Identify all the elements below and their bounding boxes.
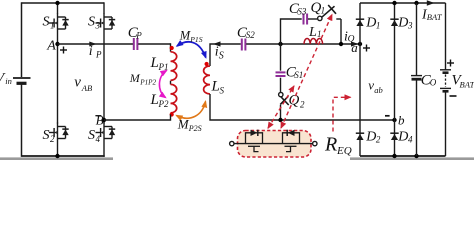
inductor LP1	[171, 52, 177, 81]
transistor S3	[96, 13, 116, 33]
junction dot Q2 bottom	[278, 118, 282, 122]
wire: left column below source	[21, 84, 23, 157]
svg-text:S: S	[43, 128, 50, 143]
gray shadow band bottom right	[350, 157, 474, 160]
svg-text:2: 2	[376, 134, 381, 144]
switch Q2	[280, 78, 282, 93]
wire: CS2 to node a	[246, 43, 360, 45]
wire: D1/D2 column	[359, 3, 361, 156]
wire: branch down to CS1	[280, 44, 282, 71]
polarity dot primary top	[170, 46, 174, 50]
wire: bottom rail right	[360, 155, 446, 157]
junction dot D3 top rail	[392, 1, 396, 5]
transistor S4	[96, 123, 116, 143]
wire: S1/S2 leg column	[57, 3, 59, 14]
wire: gap between LP1 and LP2	[170, 81, 172, 85]
svg-text:S: S	[220, 86, 225, 96]
mutual arrow MP1P2	[159, 71, 166, 98]
plus sign VBAT	[447, 60, 454, 67]
diode D1	[356, 19, 364, 26]
svg-text:D: D	[365, 129, 376, 144]
svg-text:4: 4	[408, 134, 413, 144]
transistor S1	[49, 13, 69, 33]
plus sign at node a	[363, 45, 370, 52]
svg-text:P2S: P2S	[188, 124, 202, 133]
wire: bottom rail of input bridge	[22, 155, 105, 157]
junction dot CO bottom rail	[414, 154, 418, 158]
junction dot S1 top	[55, 1, 59, 5]
polarity dot primary bottom	[170, 112, 174, 116]
junction dot CO top rail	[414, 1, 418, 5]
switch realization box RE	[238, 131, 312, 158]
svg-text:3: 3	[407, 20, 413, 30]
svg-text:1: 1	[376, 20, 381, 30]
battery VBAT	[445, 3, 447, 69]
wire: top rail of input bridge	[22, 2, 105, 4]
switch Q1	[308, 18, 317, 20]
svg-text:ab: ab	[374, 85, 383, 95]
svg-text:AB: AB	[81, 83, 92, 93]
svg-text:L: L	[308, 25, 317, 40]
svg-text:2: 2	[300, 100, 305, 110]
svg-text:v: v	[74, 75, 81, 91]
terminal left	[230, 141, 234, 145]
wire: left column to source	[21, 2, 23, 77]
wire: node A row to CP	[58, 43, 134, 45]
diode D3	[390, 19, 398, 26]
svg-text:P: P	[135, 30, 142, 40]
junction dot S2 bottom	[55, 154, 59, 158]
dashed pointer Q2 to box	[268, 86, 294, 128]
minus sign at node b	[385, 115, 390, 117]
svg-text:1: 1	[50, 20, 55, 30]
wire: S3/S4 leg column	[103, 2, 105, 13]
svg-text:B: B	[96, 112, 104, 127]
wire: switch row down to main line	[340, 19, 342, 44]
wire: secondary top corner	[210, 44, 241, 66]
svg-text:4: 4	[96, 134, 101, 144]
svg-text:D: D	[397, 129, 408, 144]
node a	[358, 42, 362, 46]
current arrow iP	[89, 42, 96, 47]
wire: primary bottom corner to B bar	[104, 114, 171, 120]
svg-text:BAT: BAT	[427, 12, 443, 22]
svg-text:S2: S2	[246, 30, 256, 40]
transistor M2 in box	[283, 130, 300, 152]
node B bar	[102, 118, 106, 122]
svg-text:S: S	[88, 15, 95, 30]
transistor S2	[49, 123, 69, 143]
mutual arrow MP1S	[177, 42, 206, 58]
svg-text:P: P	[95, 49, 102, 59]
wire: top rail right	[360, 2, 446, 4]
junction dot D4 bottom rail	[392, 154, 396, 158]
current arrow IBAT	[427, 0, 435, 6]
svg-text:R: R	[324, 134, 337, 156]
dashed arrow REQ	[333, 97, 351, 131]
inductor L1	[304, 38, 323, 44]
node A	[55, 42, 59, 46]
capacitor CS1	[276, 72, 286, 76]
diode D2	[356, 133, 364, 140]
svg-text:S3: S3	[297, 6, 307, 16]
diode D4	[390, 133, 398, 140]
wire: branch up to CS3 row	[281, 19, 302, 44]
junction dot right of L1	[339, 42, 343, 46]
svg-text:D: D	[397, 15, 408, 30]
svg-text:P1: P1	[158, 62, 169, 72]
svg-text:P1P2: P1P2	[139, 78, 156, 86]
minus sign VBAT	[450, 95, 457, 97]
svg-text:O: O	[430, 78, 437, 88]
node b	[392, 118, 396, 122]
capacitor CS2	[242, 39, 246, 51]
wire: D3/D4 column	[394, 2, 396, 157]
dashed pointer Q1 to box	[281, 15, 332, 129]
svg-text:a: a	[351, 40, 358, 55]
capacitor CO	[416, 3, 418, 75]
svg-text:S: S	[219, 51, 224, 62]
svg-text:M: M	[129, 71, 141, 85]
transistor M1 in box	[246, 130, 263, 152]
svg-text:S1: S1	[294, 70, 303, 80]
inductor LS	[204, 66, 210, 94]
polarity dot secondary	[205, 62, 209, 66]
mutual arrow MP2S	[177, 102, 206, 119]
source Vin battery	[13, 78, 31, 83]
svg-text:in: in	[5, 76, 12, 86]
plus sign at node A	[60, 47, 67, 54]
svg-text:A: A	[46, 39, 56, 54]
wire: box internal	[234, 143, 313, 145]
svg-text:b: b	[398, 112, 405, 127]
current arrow iS	[213, 41, 221, 46]
svg-text:P2: P2	[158, 99, 169, 109]
svg-text:i: i	[89, 44, 93, 59]
svg-text:S: S	[43, 15, 50, 30]
current arrow iO	[351, 41, 359, 46]
svg-text:L: L	[211, 79, 220, 95]
capacitor CP	[134, 38, 138, 50]
svg-text:S: S	[88, 128, 95, 143]
terminal right	[313, 141, 317, 145]
inductor LP2	[171, 84, 177, 113]
svg-text:L: L	[150, 92, 159, 108]
wire: secondary bottom to node b	[210, 94, 395, 120]
svg-text:BAT: BAT	[460, 80, 474, 90]
svg-text:1: 1	[321, 5, 326, 15]
svg-text:3: 3	[95, 20, 101, 30]
svg-text:M: M	[179, 29, 191, 43]
wire: CP to transformer primary top	[138, 43, 170, 45]
svg-text:D: D	[365, 15, 376, 30]
svg-text:EQ: EQ	[336, 145, 352, 157]
gray shadow band bottom left	[0, 157, 113, 160]
svg-text:2: 2	[50, 134, 55, 144]
svg-text:L: L	[150, 55, 159, 71]
junction dot center node	[278, 42, 282, 46]
capacitor CS3	[304, 14, 308, 25]
svg-text:P1S: P1S	[189, 35, 202, 44]
wire: primary top corner	[169, 44, 172, 52]
